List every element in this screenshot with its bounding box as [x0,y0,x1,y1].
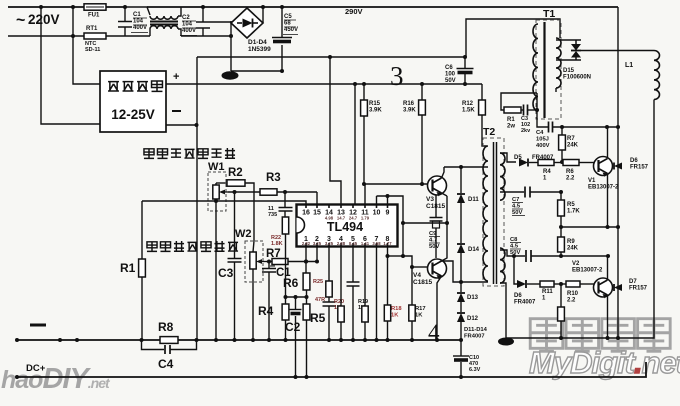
svg-text:C3: C3 [218,266,234,280]
diode D11 [460,167,462,193]
svg-text:C4: C4 [158,357,174,371]
wire AC line L (top) [8,6,618,8]
svg-text:RT1: RT1 [86,26,98,32]
svg-text:C7: C7 [512,197,519,203]
wire V3 collector to T2 primary top [444,166,488,168]
svg-text:D14: D14 [468,247,480,253]
svg-text:~: ~ [16,12,25,29]
svg-text:104: 104 [133,19,144,25]
svg-text:R7: R7 [567,136,575,142]
svg-text:FR157: FR157 [629,286,648,292]
wire T1 primary bottom to C4 [537,93,548,127]
svg-text:D11-D14: D11-D14 [464,327,488,333]
wire right vertical from AC top line [617,7,619,338]
svg-text:R22: R22 [271,235,281,241]
svg-text:15: 15 [313,210,321,217]
svg-text:R6: R6 [566,169,574,175]
svg-text:16: 16 [302,210,310,217]
svg-text:R15: R15 [369,101,381,107]
svg-text:1.77: 1.77 [383,241,392,246]
diode D15 dual [570,39,572,41]
svg-text:R19: R19 [358,299,368,305]
wire AC line N [8,35,231,37]
svg-text:T1: T1 [543,8,555,20]
svg-text:R12: R12 [462,101,474,107]
svg-text:R6: R6 [283,276,299,290]
node minus output label [30,324,46,327]
svg-text:9: 9 [386,210,390,217]
wire DC+ bus [17,362,646,377]
capacitor C6 [463,55,467,59]
svg-text:3.25: 3.25 [313,241,322,246]
wire L1 down to output return [506,100,654,339]
svg-text:2.2: 2.2 [566,176,575,182]
svg-text:R10: R10 [567,291,579,297]
svg-text:50V: 50V [512,210,522,216]
wire mid node y297 [286,296,307,298]
svg-text:+: + [173,71,179,83]
svg-text:D6: D6 [514,293,522,299]
svg-text:4: 4 [428,320,440,345]
svg-text:102: 102 [521,122,530,128]
svg-text:C6: C6 [445,65,453,71]
wire AC line N branch down to aux supply [73,7,100,84]
wire T2 sec2 top to C8 [500,250,525,256]
svg-text:R2: R2 [228,167,243,179]
ground symbol output [498,338,514,346]
svg-text:290V: 290V [345,7,363,16]
wire C4 to collector rail [553,126,619,128]
svg-text:11: 11 [268,206,274,212]
svg-text:50V: 50V [429,244,439,250]
svg-text:R25: R25 [313,279,323,285]
wire feedback to pin 15 [316,192,318,204]
svg-text:C10: C10 [469,355,479,361]
svg-text:3.25: 3.25 [325,241,334,246]
svg-text:4.5: 4.5 [510,243,519,249]
svg-text:104: 104 [182,22,193,28]
svg-text:R5: R5 [567,202,575,208]
svg-text:2w: 2w [507,124,515,130]
resistor R22 [282,217,288,234]
watermark chinese digit-home [530,319,563,352]
svg-text:C1: C1 [133,12,141,18]
svg-text:3.9K: 3.9K [403,108,416,114]
svg-text:0.45: 0.45 [349,241,358,246]
capacitor pin5 timing [352,247,354,283]
svg-text:SD-11: SD-11 [85,47,100,53]
wire AC line L branch down to aux supply [41,7,100,124]
svg-text:EB13007-2: EB13007-2 [588,185,619,191]
svg-text:2.88: 2.88 [337,241,346,246]
wire T2 sec2 bottom to ground [500,283,506,338]
svg-text:1.7K: 1.7K [567,209,580,215]
svg-text:220V: 220V [28,12,60,27]
svg-text:C5: C5 [284,14,292,20]
svg-text:105J: 105J [536,136,549,142]
svg-text:1K: 1K [391,312,399,318]
wire C2 top to bridge left vertex [210,21,231,23]
svg-text:R1: R1 [507,117,515,123]
wire T2 sec1 bottom to C7 [500,191,524,193]
svg-text:FR4007: FR4007 [464,333,485,339]
svg-text:V3: V3 [426,196,434,203]
svg-text:R4: R4 [258,304,274,318]
svg-text:MyDigit.net: MyDigit.net [529,345,680,380]
op-amp U1 TL494 PWM controller [297,205,398,247]
svg-text:24.7: 24.7 [349,216,358,221]
wire T2 primary bottom [461,281,488,283]
svg-text:1.79: 1.79 [361,216,370,221]
svg-text:D7: D7 [629,279,637,285]
svg-text:24K: 24K [567,143,579,149]
svg-text:D15: D15 [563,68,575,74]
wire T2 sec1 top to D5 [500,153,516,162]
node aux - terminal [172,110,181,112]
svg-text:FU1: FU1 [88,13,100,19]
svg-text:450V: 450V [284,27,298,33]
svg-text:W2: W2 [235,228,252,240]
svg-text:FR4007: FR4007 [514,300,536,306]
svg-text:V2: V2 [572,261,580,267]
thermistor RT1 [84,33,106,39]
svg-text:2.2: 2.2 [567,298,576,304]
label current-adjust potentiometer [144,148,235,158]
svg-text:TL494: TL494 [327,220,363,234]
svg-text:100: 100 [445,72,456,78]
svg-text:D11: D11 [468,197,479,203]
capacitor C5 [281,7,283,37]
wire T1 secondary taps to D15 [556,40,571,92]
wire ground rail under bridge [231,70,282,72]
svg-text:3.9K: 3.9K [369,108,382,114]
wire 290V rail (node 3 top) [197,56,465,58]
svg-text:12-25V: 12-25V [111,107,155,122]
fuse FU1 [84,4,106,10]
svg-text:T2: T2 [483,126,495,138]
svg-text:R9: R9 [567,239,575,245]
label voltage-adjust potentiometer [147,241,238,251]
svg-text:D13: D13 [467,295,479,301]
svg-text:1K: 1K [415,312,423,318]
svg-text:R5: R5 [310,311,326,325]
transistor V4 C1815 [428,259,447,278]
wire pin7 to bus [376,247,378,341]
wire V3 emitter / V4 link [442,196,448,261]
svg-text:3: 3 [390,61,404,91]
svg-text:R16: R16 [403,101,415,107]
wire emitter rail y227 [561,226,618,228]
wire pins 9,10 net [377,196,388,205]
svg-text:14.7: 14.7 [337,216,346,221]
svg-text:C1815: C1815 [413,279,433,286]
svg-text:V4: V4 [413,272,421,279]
svg-text:400V: 400V [536,143,550,149]
svg-text:1N5399: 1N5399 [248,46,271,53]
wire R1 top rail to pin16 [142,201,306,204]
svg-text:NTC: NTC [85,41,96,47]
wire R22 down to R4 node [285,234,287,297]
wire C9 right link [403,222,447,224]
pin ticks TL494 [305,205,307,247]
wire D15 output to L1 [581,50,654,52]
svg-text:D12: D12 [467,316,479,322]
wire aux - output [166,124,197,126]
svg-text:1.41: 1.41 [361,241,370,246]
wire R2 net down to W2 [245,183,254,241]
wire rail to pin12 [354,84,356,204]
svg-text:4.5: 4.5 [512,203,521,209]
diode D13 [457,293,465,302]
diode D12 [457,313,465,322]
svg-text:C2: C2 [285,320,301,334]
aux supply box 12-25V [100,71,166,132]
transistor V1 EB13007-2 [594,157,613,176]
svg-text:R1: R1 [120,261,136,275]
transistor V2 EB13007-2 [594,278,613,297]
wire aux + output rail [166,83,482,85]
capacitor C2 [202,7,204,22]
svg-text:D6: D6 [630,158,638,164]
wire C8 branch down to D6 [514,256,517,284]
svg-text:R18: R18 [391,306,402,312]
wire pin11 drive rail [364,184,428,204]
ground symbol [222,71,239,79]
svg-text:L1: L1 [625,62,633,69]
wire negative bus [17,339,461,341]
svg-text:C2: C2 [182,15,190,21]
svg-text:W1: W1 [208,161,225,173]
svg-text:R4: R4 [543,169,551,175]
svg-text:R17: R17 [415,306,426,312]
svg-text:50V: 50V [445,78,456,84]
svg-text:470: 470 [469,361,478,367]
svg-text:R20: R20 [334,299,344,305]
svg-text:400V: 400V [182,28,196,34]
svg-text:400V: 400V [133,25,147,31]
svg-text:4.98: 4.98 [325,216,334,221]
wire vertical rail from 290V line down to bottom bus [196,57,198,340]
svg-text:1.8K: 1.8K [271,241,283,247]
svg-text:2.82: 2.82 [302,241,311,246]
wire pin2 to wiper net [316,247,318,263]
transistor V3 C1815 [428,176,447,195]
svg-text:R11: R11 [542,289,553,295]
wire bridge AC top connection [262,7,264,23]
svg-text:1.5K: 1.5K [462,108,475,114]
svg-text:3.58: 3.58 [372,241,381,246]
wire 290V to pin13 [330,57,341,204]
svg-text:R3: R3 [266,172,281,184]
capacitor C1 [124,7,126,21]
wire riser from 290V rail to T1 [466,19,560,57]
svg-text:C4: C4 [536,130,544,136]
svg-text:68: 68 [284,21,291,27]
svg-text:EB13007-2: EB13007-2 [572,268,603,274]
diode D14 [460,203,462,243]
inductor common-mode choke [125,7,150,15]
bridge rectifier D1-D4 [231,8,263,38]
svg-text:DC+: DC+ [26,363,46,374]
svg-text:R8: R8 [158,320,174,334]
svg-text:10: 10 [373,210,381,217]
svg-text:F100600N: F100600N [563,75,591,81]
svg-text:24K: 24K [567,246,579,252]
wire bridge left arm down to ground rail [230,21,232,71]
svg-text:C8: C8 [510,237,518,243]
svg-text:735: 735 [268,212,277,218]
svg-text:FR157: FR157 [630,165,649,171]
svg-text:D1-D4: D1-D4 [248,39,267,46]
svg-text:V1: V1 [588,178,596,184]
svg-text:6.3V: 6.3V [469,367,481,373]
svg-text:2kv: 2kv [521,128,531,134]
resistor R13 lower [560,284,562,307]
wire pin8 to R18 node [388,255,404,257]
svg-text:C3: C3 [521,116,528,122]
